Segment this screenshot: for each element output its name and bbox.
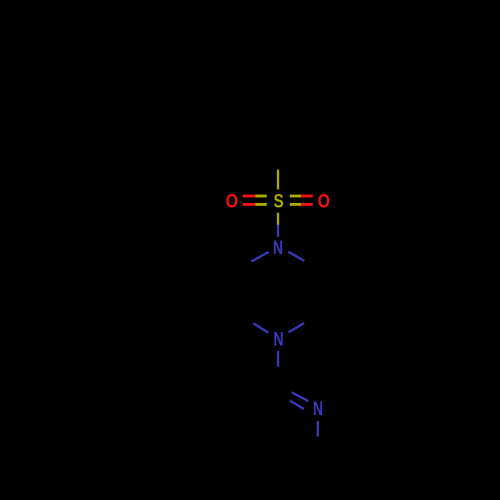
wire N1 to C2 piperazine (upper-left diagonal half-bond) xyxy=(251,252,268,262)
svg-text:O: O xyxy=(318,191,330,212)
wire N4 to pyridine C2 (blue N half) xyxy=(277,351,279,367)
pyridine C2=N3 double bond, main line (blue N half) xyxy=(292,392,309,401)
svg-text:S: S xyxy=(274,191,284,212)
wire pyridine N to C6 (blue N half) xyxy=(317,421,319,437)
pyridine C2=N3 double bond, inner line (blue N half) xyxy=(290,401,304,409)
wire N4 to C3 piperazine (lower-left diagonal half-bond) xyxy=(253,323,268,332)
svg-text:N: N xyxy=(313,399,323,420)
wire N4 to C5 piperazine (lower-right diagonal half-bond) xyxy=(288,323,304,332)
sulfonyl S=O right double bond (olive S half + red O half, two lines) xyxy=(290,196,313,204)
wire S to N1 (olive S half) xyxy=(277,213,279,225)
wire N1 to C6 piperazine (upper-right diagonal half-bond) xyxy=(288,252,304,261)
svg-text:O: O xyxy=(226,191,238,212)
wire S to N1 (blue N half) xyxy=(277,225,279,237)
svg-text:N: N xyxy=(273,330,283,351)
svg-text:N: N xyxy=(273,238,283,259)
wire S to alkyl C (upper half-bond, S side) xyxy=(277,170,279,190)
sulfonyl S=O left double bond (red O half + olive S half, two lines) xyxy=(243,196,267,204)
